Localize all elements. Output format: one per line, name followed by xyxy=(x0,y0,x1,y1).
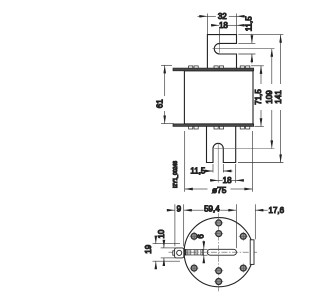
indicator pin xyxy=(177,250,182,255)
dimension 6 xyxy=(202,241,208,262)
dimension 10 xyxy=(161,241,176,266)
horizontal centerline xyxy=(169,251,258,253)
svg-text:6: 6 xyxy=(197,234,206,239)
dimension 59,4 xyxy=(184,204,237,248)
svg-text:18: 18 xyxy=(219,21,228,30)
mounting holes xyxy=(191,220,246,285)
dimension 11,5 top xyxy=(238,34,255,64)
dimension 109 xyxy=(271,49,273,149)
right fixing tab xyxy=(250,240,254,265)
dimension 11,5 bottom xyxy=(206,164,233,173)
dimension 141 xyxy=(238,35,283,163)
indicator housing xyxy=(175,248,184,258)
svg-text:32: 32 xyxy=(218,12,227,21)
svg-text:18: 18 xyxy=(223,176,232,185)
serrated indicator strip xyxy=(184,250,204,256)
top blade contact with open slot xyxy=(207,35,236,69)
svg-text:17,6: 17,6 xyxy=(269,206,285,215)
vertical centerline xyxy=(218,213,220,291)
dimension 71,5 xyxy=(251,66,264,127)
dimension 19 xyxy=(153,237,181,269)
dimension diameter 75 xyxy=(185,131,253,192)
svg-text:71,5: 71,5 xyxy=(254,89,263,105)
svg-text:10: 10 xyxy=(157,229,166,238)
svg-text:19: 19 xyxy=(144,244,153,253)
bottom view circle xyxy=(184,218,253,287)
bottom blade contact with open slot xyxy=(207,125,236,163)
top end plate xyxy=(173,68,254,71)
bottom grip lugs xyxy=(189,126,250,129)
top slot centerline xyxy=(213,45,275,53)
dimension 18 bottom xyxy=(210,164,244,183)
svg-text:109: 109 xyxy=(265,90,274,104)
bottom slot centerline xyxy=(214,143,274,183)
body (ceramic barrel, side view) xyxy=(184,71,253,124)
svg-text:11,5: 11,5 xyxy=(244,16,253,32)
dimension 61 xyxy=(161,65,174,123)
svg-text:9: 9 xyxy=(177,204,182,213)
dimension 32 xyxy=(198,14,247,35)
dimension 9 xyxy=(167,204,175,246)
top grip lugs xyxy=(189,66,250,68)
svg-text:59,4: 59,4 xyxy=(204,204,220,213)
svg-text:61: 61 xyxy=(156,99,165,108)
svg-text:11,5: 11,5 xyxy=(190,167,206,176)
svg-text:I2Y1_00248: I2Y1_00248 xyxy=(173,161,179,188)
bottom end plate xyxy=(173,124,254,127)
hole center crosses xyxy=(190,223,248,282)
svg-text:141: 141 xyxy=(274,90,283,104)
indicator stub xyxy=(173,251,175,255)
svg-text:ø75: ø75 xyxy=(212,185,227,195)
dimension 18 top xyxy=(211,25,245,44)
dimension 17,6 xyxy=(255,204,267,239)
blade end-on (stadium) xyxy=(207,249,236,255)
